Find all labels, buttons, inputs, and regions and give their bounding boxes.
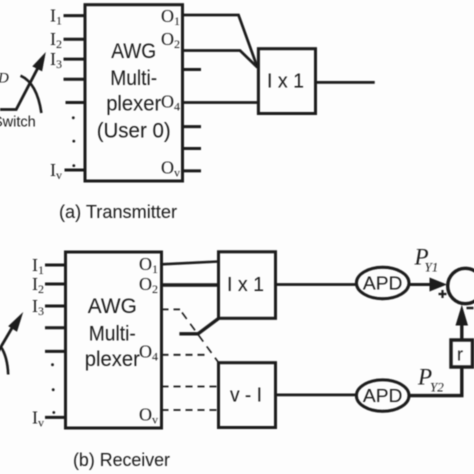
svg-text:Y2: Y2 [430, 380, 444, 395]
svg-text:APD: APD [363, 272, 403, 293]
svg-text:Switch: Switch [0, 115, 36, 131]
svg-text:plexer: plexer [85, 348, 140, 371]
svg-text:APD: APD [363, 385, 403, 406]
svg-text:AWG: AWG [111, 40, 156, 63]
svg-text:v - I: v - I [230, 385, 262, 407]
svg-text:plexer: plexer [106, 93, 161, 116]
svg-text:I x 1: I x 1 [227, 274, 264, 296]
svg-text:D: D [0, 71, 9, 87]
svg-text:Multi-: Multi- [89, 323, 136, 346]
svg-text:Y1: Y1 [425, 260, 439, 275]
svg-text:I x 1: I x 1 [267, 71, 304, 93]
svg-text:AWG: AWG [88, 295, 137, 318]
svg-text:r: r [457, 345, 463, 365]
svg-text:(User 0): (User 0) [97, 120, 171, 143]
svg-text:(a) Transmitter: (a) Transmitter [59, 202, 177, 222]
svg-text:(b) Receiver: (b) Receiver [73, 450, 170, 470]
svg-text:Multi-: Multi- [110, 67, 157, 90]
